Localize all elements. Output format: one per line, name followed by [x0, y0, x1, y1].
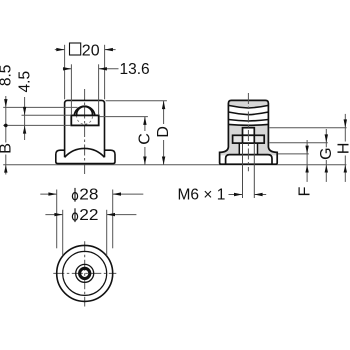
- ball hidden arc: [77, 115, 93, 124]
- svg-text:13.6: 13.6: [120, 61, 150, 78]
- silhouette: [220, 100, 278, 164]
- base bulge arc: [65, 148, 105, 157]
- svg-text:22: 22: [79, 207, 98, 224]
- square symbol of sq20: [70, 43, 81, 55]
- ext line H (nut top): [269, 127, 346, 129]
- dim line 13.6 left: [63, 68, 72, 70]
- svg-text:C: C: [136, 133, 153, 145]
- dim line F upper: [306, 140, 308, 165]
- dim line dia28 left: [40, 193, 56, 195]
- arrow F up below ground: [305, 165, 308, 173]
- dim line F tail: [306, 165, 308, 182]
- svg-text:B: B: [0, 143, 15, 154]
- arrow G down: [325, 134, 328, 142]
- stud line left: [242, 143, 244, 198]
- arrow 4.5 down: [23, 107, 26, 115]
- arrow 13.6 left: [63, 67, 71, 70]
- arrow dia22 right: [107, 213, 115, 216]
- white neck zone: [239, 143, 257, 155]
- svg-text:20: 20: [82, 43, 100, 60]
- centerline horizontal: [53, 272, 116, 274]
- arrow M6 right: [254, 193, 262, 196]
- arrow dia22 left: [54, 213, 62, 216]
- ext line dia22 right: [106, 210, 108, 256]
- stud cross cell: [243, 135, 255, 143]
- svg-text:4.5: 4.5: [16, 71, 33, 93]
- svg-text:28: 28: [79, 187, 98, 204]
- ext line 13.6 right: [98, 64, 100, 115]
- nut bar: [233, 135, 265, 143]
- arrow C down: [143, 157, 146, 165]
- dim line D lower: [163, 140, 165, 165]
- dim line dia22 right: [107, 214, 137, 216]
- dim line H upper: [344, 114, 346, 142]
- curve L2: [228, 112, 268, 115]
- ext line G (bar bottom): [269, 142, 328, 144]
- ext line sq20 right: [104, 45, 106, 100]
- ext line 13.6 left: [70, 64, 72, 115]
- dim line G lower: [325, 160, 327, 165]
- dim line C lower: [144, 147, 146, 165]
- centerline front view: [84, 89, 86, 174]
- svg-text:8.5: 8.5: [0, 65, 15, 87]
- arrow H down: [344, 119, 347, 127]
- silhouette stroke: [220, 100, 278, 164]
- dim line H lower: [344, 156, 346, 165]
- thick ring: [80, 268, 90, 278]
- white pad in flange: [226, 155, 272, 165]
- dome outer arc: [74, 106, 95, 115]
- dim line 8.5 and B upper: [5, 96, 7, 143]
- neck edge left: [238, 143, 240, 155]
- dim line G upper: [325, 129, 327, 147]
- dim line sq20 right: [105, 49, 116, 51]
- dim line 13.6 right leader: [99, 68, 119, 70]
- dim line B lower: [5, 155, 7, 175]
- svg-text:H: H: [336, 143, 350, 155]
- arrow dia28 right: [113, 192, 121, 195]
- ext line band top: [22, 114, 71, 116]
- gray top strip: [228, 100, 268, 108]
- circle dia22: [63, 251, 107, 295]
- dim line G tail: [325, 165, 327, 182]
- ext line dia28 left: [56, 190, 58, 249]
- curve L4: [228, 123, 268, 126]
- arrow F down: [305, 146, 308, 154]
- base outline: [56, 150, 115, 163]
- dim line M6 right: [254, 194, 266, 196]
- nut square top: [243, 128, 255, 136]
- arrow M6 left: [234, 193, 242, 196]
- dot shared 8.5/B: [4, 124, 8, 128]
- stud line right: [253, 143, 255, 198]
- svg-text:M6 × 1: M6 × 1: [178, 186, 226, 203]
- arrow 4.5 up: [23, 126, 26, 134]
- dim line M6 left: [229, 194, 243, 196]
- ext line 8.5 top (dome top): [3, 106, 77, 108]
- dim line H tail: [344, 165, 346, 182]
- ext line dia28 right: [112, 190, 114, 249]
- arrow D down: [162, 157, 165, 165]
- svg-text:D: D: [155, 126, 172, 138]
- band plate: [71, 115, 98, 125]
- dim line dia22 left: [45, 214, 62, 216]
- arrow D up: [162, 101, 165, 109]
- ext line dia22 left: [62, 210, 64, 256]
- centerline vertical: [84, 241, 86, 306]
- ground extension line: [3, 164, 346, 166]
- dim line sq20 left: [55, 49, 65, 51]
- arrow 13.6 right: [99, 67, 107, 70]
- curve V1: [228, 105, 268, 108]
- curve L3: [228, 120, 268, 122]
- arrow C up: [143, 117, 146, 125]
- arrow sq20 right: [105, 48, 113, 51]
- ext line sq20 left: [64, 45, 66, 100]
- dim line dia28 right: [113, 193, 144, 195]
- centerline side view: [247, 93, 249, 171]
- ext line D (body top): [106, 100, 167, 102]
- ext line C (ball center): [99, 116, 148, 118]
- arrow 8.5 down: [4, 99, 7, 107]
- dim line D upper: [163, 101, 165, 124]
- arrow H up below ground: [344, 165, 347, 173]
- body outline: [65, 100, 105, 157]
- dim line 4.5 vertical: [24, 97, 26, 140]
- neck edge right: [257, 143, 259, 155]
- gray cavity and flange shoulders: [220, 124, 276, 155]
- arrow G up below ground: [325, 165, 328, 173]
- arrow B up (below ground): [4, 165, 7, 173]
- svg-text:F: F: [296, 186, 313, 196]
- label dia28 phi glyph: [72, 193, 77, 200]
- small circle: [76, 264, 94, 282]
- arrow sq20 left: [56, 48, 64, 51]
- arrow dia28 left: [48, 192, 56, 195]
- ball solid arc: [77, 107, 93, 116]
- label dia22 phi glyph: [72, 213, 77, 220]
- svg-text:G: G: [318, 147, 335, 159]
- circle dia28: [57, 245, 113, 301]
- dim line C upper: [144, 117, 146, 131]
- ext line F (pad top): [278, 153, 309, 155]
- ext line band bottom: [3, 124, 71, 126]
